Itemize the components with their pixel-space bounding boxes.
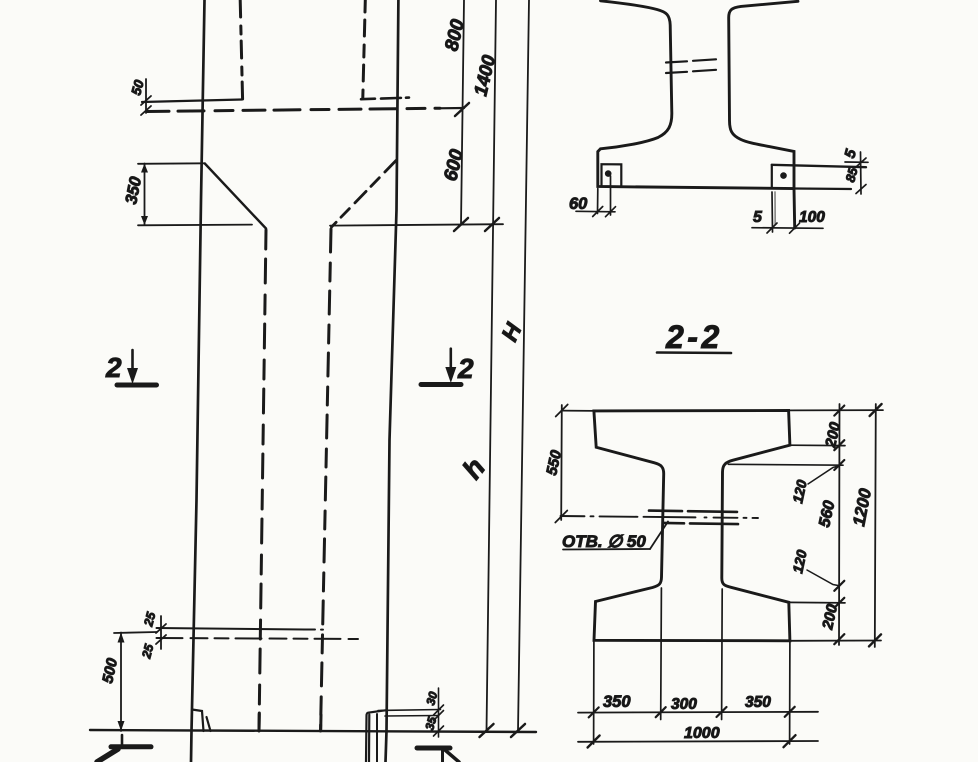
dimension 50 bbox=[141, 79, 151, 115]
svg-text:2: 2 bbox=[457, 353, 474, 384]
tick H end bbox=[511, 724, 525, 737]
tick at 600 end bbox=[454, 218, 468, 231]
section 2-2 outline bbox=[594, 411, 790, 641]
cavity bottom hidden line bbox=[147, 108, 440, 111]
hole axis line bbox=[561, 516, 759, 518]
ticks on right dimension line bbox=[834, 406, 844, 645]
web hole hidden dashes bbox=[666, 59, 716, 73]
label 120 top with leader bbox=[808, 466, 839, 484]
inner dimension line (800/600) bbox=[461, 0, 464, 225]
label 120 bottom with leader bbox=[807, 570, 839, 586]
dimension 5/85 (right plate) bbox=[845, 152, 868, 194]
svg-text:ОТВ. ∅ 50: ОТВ. ∅ 50 bbox=[562, 532, 646, 551]
section mark 2 (right) bbox=[421, 349, 461, 385]
svg-text:300: 300 bbox=[671, 696, 697, 713]
right plate top line bbox=[772, 165, 866, 167]
bottom-right section cut mark bbox=[417, 748, 459, 762]
dimension 350 bbox=[138, 163, 252, 225]
left cavity hidden line (top) bbox=[240, 0, 242, 100]
section outline bbox=[598, 1, 798, 228]
bottom dimension row 350/300/350 bbox=[578, 711, 818, 714]
section mark 2 (left) bbox=[117, 350, 157, 385]
svg-text:5: 5 bbox=[753, 209, 763, 226]
svg-text:350: 350 bbox=[745, 694, 771, 711]
base line bbox=[90, 730, 536, 732]
tick at 800/600 boundary bbox=[455, 103, 469, 116]
right anchor square left edge bbox=[771, 165, 773, 187]
dimension 25/25 bbox=[156, 616, 166, 649]
bottom-left section cut mark bbox=[97, 735, 151, 762]
hole hidden dashes (2-2) bbox=[649, 511, 738, 524]
right column outer edge line bbox=[386, 0, 399, 762]
extension lines right bbox=[728, 445, 845, 603]
right foot inner line bbox=[376, 714, 378, 762]
svg-text:60: 60 bbox=[569, 195, 588, 213]
1200 dimension line bbox=[789, 404, 883, 647]
right cavity hidden line (top) bbox=[363, 0, 366, 98]
bottom dimension row 1000 bbox=[578, 740, 818, 743]
left step ledge solid line bbox=[142, 100, 242, 103]
svg-text:100: 100 bbox=[799, 209, 825, 226]
right dimension line (200/120/560/120/200) bbox=[838, 404, 841, 645]
dimension 60 bbox=[576, 176, 616, 217]
left foot bracket bbox=[192, 710, 211, 732]
dimension 500 bbox=[114, 632, 157, 731]
left column outer edge line bbox=[191, 0, 205, 762]
dimension 5/100 (bottom of right square) bbox=[752, 192, 823, 233]
svg-text:2: 2 bbox=[105, 352, 122, 383]
right anchor dot bbox=[780, 172, 787, 179]
tick h end bbox=[480, 724, 494, 737]
left anchor square bbox=[602, 164, 622, 186]
svg-text:350: 350 bbox=[603, 693, 631, 711]
left cavity hidden line (shaft) bbox=[259, 230, 266, 731]
cavity dash closer segments at base bbox=[258, 713, 261, 731]
anchor lines pair (25/25) bbox=[157, 628, 306, 630]
right plate bottom line bbox=[794, 187, 851, 190]
dimension 550 bbox=[555, 405, 594, 523]
bottom extension lines (2-2) bbox=[594, 588, 790, 744]
left anchor dot bbox=[605, 170, 612, 177]
dimension 30/35 (right foot) bbox=[378, 688, 444, 737]
right cavity hidden line (shaft) bbox=[321, 229, 332, 731]
left taper solid line bbox=[205, 164, 266, 229]
outer dimension line (H) bbox=[518, 0, 529, 731]
hole label leader bbox=[650, 522, 668, 550]
section 2-2 title underline bbox=[657, 351, 731, 354]
right step hidden dashes bbox=[361, 98, 409, 100]
right taper hidden line bbox=[332, 161, 397, 228]
right foot bracket bbox=[366, 710, 386, 762]
middle dimension line (1400/h) bbox=[487, 0, 497, 731]
tick 1400 end bbox=[485, 218, 499, 231]
svg-text:2-2: 2-2 bbox=[665, 319, 723, 355]
hole label underline bbox=[563, 548, 650, 551]
extension line at haunch level bbox=[330, 224, 503, 225]
svg-text:1000: 1000 bbox=[684, 725, 720, 742]
